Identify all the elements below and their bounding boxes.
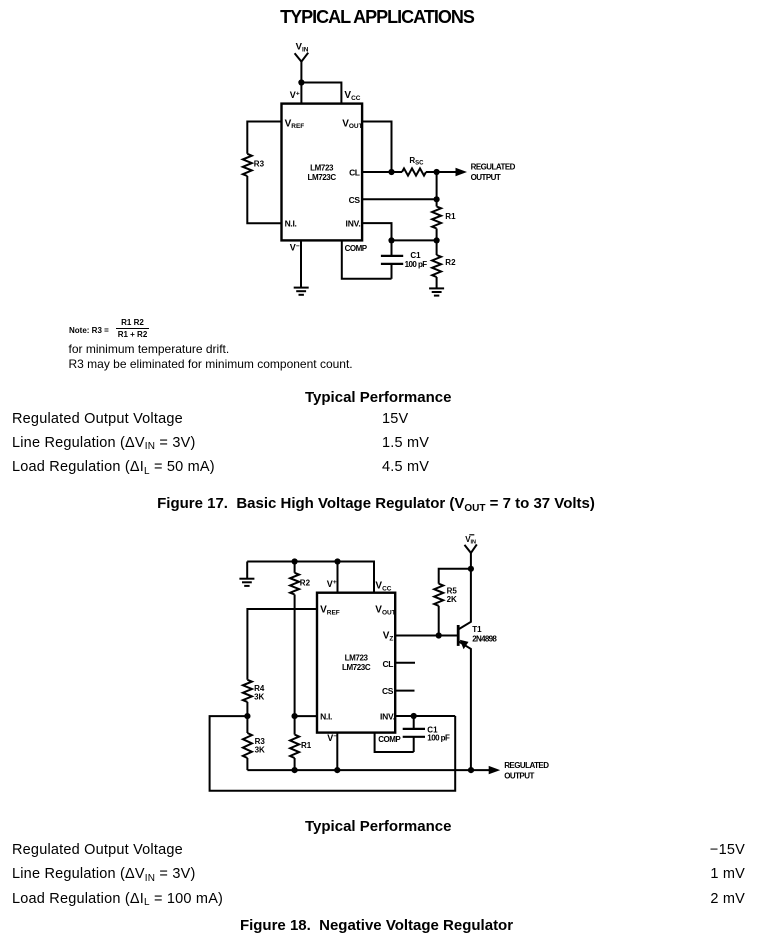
- svg-text:V+: V+: [290, 90, 300, 100]
- junction R2 top (Fig 18): [292, 558, 298, 564]
- svg-text:REGULATED: REGULATED: [471, 163, 516, 172]
- wire bottom rail (Fig 18): [247, 769, 489, 771]
- junction CL / VOUT (Fig 17): [388, 169, 394, 175]
- arrow to regulated output (Fig 18): [489, 766, 501, 774]
- wire V+ stub (Fig 17): [300, 83, 302, 104]
- svg-text:V−: V−: [327, 733, 337, 743]
- junction V+ / VCC node (Fig 17): [298, 79, 304, 85]
- svg-text:100 pF: 100 pF: [427, 734, 450, 743]
- capacitor C1 (Fig 17): [381, 240, 427, 278]
- svg-text:VOUT: VOUT: [342, 118, 362, 130]
- junction R4 / R3 / feedback (Fig 18): [244, 713, 250, 719]
- resistor R5 2K (Fig 18): [434, 584, 457, 636]
- wire VIN- to R5 (Fig 18): [439, 569, 471, 584]
- op-amp U2 LM723 regulator IC (Fig 18): [317, 593, 396, 733]
- wire output node down to CS node (Fig 17): [436, 172, 438, 199]
- svg-text:2K: 2K: [447, 595, 457, 604]
- svg-text:VIN: VIN: [465, 535, 476, 546]
- svg-text:COMP: COMP: [345, 244, 368, 253]
- wire C1 bottom to COMP pin (Fig 18): [375, 733, 414, 752]
- svg-text:2N4898: 2N4898: [472, 634, 497, 643]
- note formula R3 = R1R2/(R1+R2): [69, 326, 109, 335]
- op-amp U1 LM723 regulator IC (Fig 17): [282, 104, 363, 241]
- junction V- on rail (Fig 18): [334, 767, 340, 773]
- caption Figure 18: [0, 917, 753, 934]
- wire CS stub (Fig 18): [395, 690, 414, 692]
- svg-text:100 pF: 100 pF: [405, 260, 428, 269]
- svg-text:RSC: RSC: [409, 156, 424, 167]
- wire CS pin to R1 top (Fig 17): [362, 198, 437, 200]
- wire V- stub (Fig 17): [300, 240, 302, 287]
- junction emitter / output (Fig 18): [468, 767, 474, 773]
- svg-text:LM723: LM723: [310, 163, 334, 172]
- svg-text:VOUT: VOUT: [375, 605, 395, 617]
- svg-text:R2: R2: [445, 258, 456, 267]
- wire R2 down to N.I. node (Fig 18): [294, 595, 296, 717]
- svg-text:R1: R1: [301, 741, 312, 750]
- wire N.I. pin (Fig 18): [295, 715, 317, 717]
- svg-text:LM723C: LM723C: [307, 173, 336, 182]
- junction R1 / R2 / INV node (Fig 17): [434, 237, 440, 243]
- svg-text:3K: 3K: [254, 692, 264, 701]
- label REGULATED OUTPUT (Fig 18): [504, 761, 549, 780]
- junction C1 top node (Fig 17): [388, 237, 394, 243]
- table Typical Performance (Fig 18): [305, 818, 451, 835]
- wire VZ pin to base (Fig 18): [395, 635, 457, 637]
- svg-text:3K: 3K: [255, 745, 265, 754]
- wire V+ stub (Fig 18): [337, 562, 339, 593]
- svg-text:VIN: VIN: [296, 42, 309, 54]
- wire top rail to VCC (Fig 18): [247, 562, 374, 593]
- svg-text:V−: V−: [290, 243, 300, 253]
- wire RSC to output node (Fig 17): [426, 171, 437, 173]
- wire CL pin (Fig 17): [362, 171, 391, 173]
- wire VREF to R3 (Fig 17): [247, 122, 281, 154]
- transistor T1 2N4898 (Fig 18): [458, 569, 497, 770]
- resistor R1 (Fig 18): [290, 716, 312, 770]
- wire VIN to VCC (Fig 17): [301, 83, 341, 104]
- ground at V- (Fig 17): [294, 287, 309, 289]
- junction VIN- node (Fig 18): [468, 566, 474, 572]
- svg-text:VREF: VREF: [320, 605, 340, 617]
- svg-text:OUTPUT: OUTPUT: [504, 771, 534, 780]
- svg-text:REGULATED: REGULATED: [504, 761, 549, 770]
- svg-text:R1: R1: [445, 212, 456, 221]
- capacitor C1 100 pF (Fig 18): [403, 716, 450, 752]
- wire V- stub (Fig 18): [336, 733, 338, 771]
- wire feedback loop to INV (Fig 18): [210, 716, 456, 791]
- title TYPICAL APPLICATIONS: [0, 7, 754, 28]
- wire VREF to R4 (Fig 18): [247, 609, 317, 680]
- junction output node (Fig 17): [434, 169, 440, 175]
- svg-text:V+: V+: [327, 579, 337, 589]
- svg-text:VCC: VCC: [344, 90, 360, 102]
- caption Figure 17: [0, 495, 752, 512]
- svg-text:CS: CS: [349, 195, 361, 205]
- svg-text:R3: R3: [254, 160, 265, 169]
- wire CL stub (Fig 18): [395, 662, 415, 664]
- svg-text:N.I.: N.I.: [320, 712, 332, 722]
- resistor RSC (Fig 17): [402, 156, 426, 176]
- note text lines: [69, 342, 230, 356]
- junction R1 bottom (Fig 18): [292, 767, 298, 773]
- wire R3 to N.I. pin (Fig 17): [247, 176, 281, 223]
- wire VOUT to CL node (Fig 17): [362, 122, 391, 173]
- wire INV pin (Fig 17): [362, 223, 391, 240]
- junction V+ node (Fig 18): [334, 558, 340, 564]
- wire INV pin to loop (Fig 18): [395, 715, 455, 717]
- label REGULATED OUTPUT (Fig 17): [471, 163, 516, 182]
- junction R5 / base (Fig 18): [436, 632, 442, 638]
- svg-text:N.I.: N.I.: [285, 218, 297, 228]
- resistor R4 3K (Fig 18): [243, 680, 265, 716]
- svg-text:LM723C: LM723C: [342, 663, 371, 672]
- svg-text:CL: CL: [349, 167, 360, 177]
- node VIN- input terminal (Fig 18): [465, 535, 477, 569]
- resistor R1 (Fig 17): [432, 199, 456, 240]
- svg-text:C1: C1: [410, 251, 421, 260]
- resistor R2 (Fig 18): [290, 562, 310, 595]
- node VIN input terminal (Fig 17): [295, 42, 309, 83]
- junction CS node (Fig 17): [434, 196, 440, 202]
- svg-text:OUTPUT: OUTPUT: [471, 173, 501, 182]
- svg-text:VREF: VREF: [285, 118, 305, 130]
- svg-text:VCC: VCC: [375, 581, 391, 593]
- ground input common (Fig 18): [239, 562, 254, 586]
- svg-text:T1: T1: [472, 625, 482, 634]
- resistor R3 3K (Fig 18): [243, 716, 265, 770]
- junction N.I. node (Fig 18): [292, 713, 298, 719]
- svg-text:VZ: VZ: [383, 631, 394, 643]
- resistor R2 (Fig 17): [432, 240, 456, 288]
- resistor R3 (Fig 17): [243, 154, 265, 176]
- wire + arrow to regulated output (Fig 17): [437, 168, 467, 176]
- wire C1 bottom to COMP pin (Fig 17): [342, 240, 392, 278]
- ground at R2 (Fig 17): [429, 287, 444, 289]
- svg-text:LM723: LM723: [345, 653, 369, 662]
- junction C1 top (Fig 18): [411, 713, 417, 719]
- svg-text:INV.: INV.: [380, 712, 395, 722]
- table Typical Performance (Fig 17): [305, 389, 451, 406]
- svg-text:CS: CS: [382, 686, 394, 696]
- svg-text:CL: CL: [382, 659, 393, 669]
- svg-text:R2: R2: [300, 579, 311, 588]
- wire CL node to RSC (Fig 17): [392, 171, 403, 173]
- wire C1 node to R1/R2 node (Fig 17): [392, 239, 437, 241]
- svg-text:COMP: COMP: [378, 735, 401, 744]
- svg-text:INV.: INV.: [346, 218, 361, 228]
